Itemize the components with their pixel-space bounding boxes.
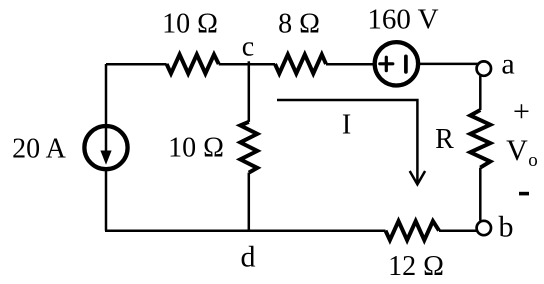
svg-text:o: o	[528, 150, 538, 171]
svg-text:V: V	[506, 134, 528, 167]
svg-text:b: b	[499, 211, 514, 244]
svg-text:d: d	[241, 241, 256, 274]
svg-text:10 Ω: 10 Ω	[168, 133, 224, 164]
svg-text:20 A: 20 A	[12, 134, 66, 165]
svg-text:c: c	[242, 32, 254, 63]
svg-text:8 Ω: 8 Ω	[278, 9, 320, 40]
svg-text:160 V: 160 V	[367, 4, 438, 36]
svg-text:R: R	[435, 124, 454, 155]
svg-text:+: +	[513, 95, 530, 128]
svg-text:10 Ω: 10 Ω	[162, 9, 218, 40]
svg-text:I: I	[342, 110, 351, 141]
svg-text:12 Ω: 12 Ω	[388, 251, 444, 282]
svg-text:a: a	[501, 48, 514, 81]
